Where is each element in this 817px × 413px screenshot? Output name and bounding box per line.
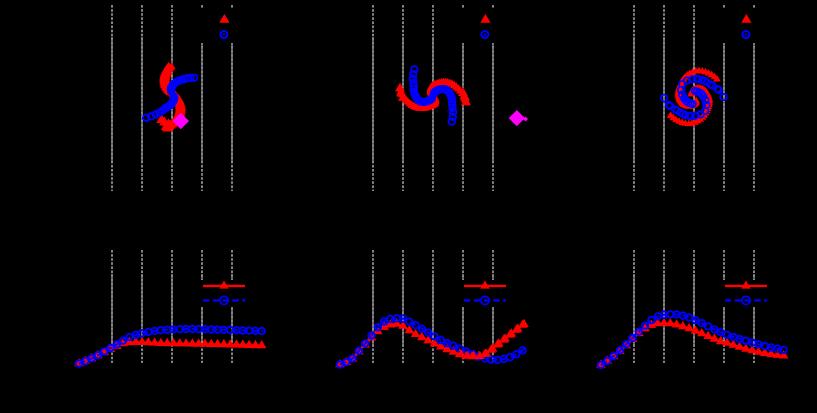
legend red solid line with triangle (bottom) (725, 285, 767, 287)
blue spiral arm 1 overlay, panel 3 (678, 76, 727, 108)
dotted vertical line, top panel 2 (402, 37, 404, 163)
dotted vertical line, bottom panel 2 (372, 274, 374, 345)
legend red solid line with triangle (bottom) (203, 285, 245, 287)
legend background box (bottom) (457, 280, 523, 307)
dotted vertical line, top panel 2 (492, 37, 494, 163)
red spiral arm 1b, panel 1 (164, 91, 186, 131)
dotted vertical line, top panel 2 (372, 37, 374, 163)
dotted vertical line, bottom panel 1 (141, 274, 143, 345)
red curve line, bottom panel 1 (79, 342, 263, 363)
blue curve dashed line, bottom panel 2 (340, 318, 527, 364)
red curve triangle markers, bottom panel 1 (74, 337, 266, 367)
legend background box (top) (457, 9, 523, 43)
dotted vertical line, bottom panel 2 (462, 274, 464, 345)
red spiral arm 2, panel 1 (159, 62, 174, 95)
legend blue circled dot (top) (220, 31, 227, 38)
dotted vertical line, bottom panel 3 (723, 274, 725, 345)
dotted vertical line, bottom panel 3 (663, 274, 665, 345)
red curve triangle markers, bottom panel 3 (596, 318, 788, 368)
small magenta marker, panel 2 (523, 117, 528, 122)
blue spiral arm 2, panel 3 (661, 88, 710, 120)
dotted vertical line, top panel 1 (141, 37, 143, 163)
blue curve dashed line, bottom panel 3 (601, 314, 786, 365)
legend red triangle (top) (219, 14, 229, 23)
dotted vertical line, bottom panel 2 (492, 274, 494, 345)
legend blue dashed line with circle (bottom) (203, 299, 245, 301)
red curve line, bottom panel 3 (601, 323, 786, 365)
legend blue dashed line with circle (bottom) (464, 299, 506, 301)
blue spiral arm 1, panel 1 (143, 93, 178, 121)
magenta diamond marker, panel 2 (509, 110, 525, 126)
legend red triangle (top) (741, 14, 751, 23)
dotted vertical line, top panel 3 (663, 37, 665, 163)
dotted vertical line, top panel 1 (201, 37, 203, 163)
red cluster at arm tip, panel 1 (156, 114, 174, 132)
dotted vertical line, bottom panel 2 (432, 274, 434, 345)
legend background box (bottom) (196, 280, 262, 307)
magenta diamond marker, panel 1 (173, 113, 189, 129)
red curve triangle markers, bottom panel 2 (335, 319, 527, 368)
blue curve circle markers, bottom panel 1 (76, 326, 265, 367)
blue curve circle markers, bottom panel 2 (337, 315, 526, 368)
dotted vertical line, bottom panel 1 (201, 274, 203, 345)
dotted vertical line, bottom panel 3 (753, 274, 755, 345)
red cluster at right arm tip, panel 2 (395, 83, 471, 106)
legend red solid line with triangle (bottom) (464, 285, 506, 287)
dotted vertical line, bottom panel 2 (402, 274, 404, 345)
legend blue dashed line with circle (bottom) (725, 299, 767, 301)
blue spiral arm 2 overlay, panel 3 (661, 88, 710, 120)
dotted vertical line, bottom panel 3 (693, 274, 695, 345)
dotted vertical line, top panel 3 (693, 37, 695, 163)
red spiral arm 1, panel 2 (426, 78, 470, 105)
legend blue circled dot (top) (742, 31, 749, 38)
dotted vertical line, top panel 3 (753, 37, 755, 163)
legend blue circled dot (top) (481, 31, 488, 38)
blue spiral arm 1, panel 3 (678, 76, 727, 108)
red curve overlay at crossing, bottom panel 2 (456, 319, 529, 360)
dotted vertical line, top panel 3 (723, 37, 725, 163)
legend red triangle (top) (480, 14, 490, 23)
dotted vertical line, top panel 2 (462, 37, 464, 163)
legend background box (top) (196, 9, 262, 43)
legend background box (bottom) (718, 280, 784, 307)
dotted vertical line, bottom panel 1 (171, 274, 173, 345)
red spiral arm 2, panel 3 (667, 84, 713, 126)
dotted vertical line, top panel 1 (171, 37, 173, 163)
blue spiral arm 2, panel 2 (431, 86, 457, 125)
red curve line, bottom panel 2 (340, 323, 526, 365)
legend background box (top) (718, 9, 784, 43)
dotted vertical line, bottom panel 1 (231, 274, 233, 345)
blue curve dashed line, bottom panel 1 (79, 329, 263, 364)
blue spiral arm 2, panel 1 (168, 75, 198, 95)
dotted vertical line, top panel 2 (432, 37, 434, 163)
dotted vertical line, top panel 1 (231, 37, 233, 163)
dotted vertical line, bottom panel 1 (111, 274, 113, 345)
blue spiral arm 1, panel 2 (410, 66, 436, 105)
red spiral arm 1, panel 1 (161, 90, 183, 130)
red spiral arm 2, panel 2 (396, 84, 440, 111)
red spiral arm 1, panel 3 (674, 67, 720, 109)
dotted vertical line, top panel 3 (633, 37, 635, 163)
red spiral arm 2b, panel 1 (162, 62, 177, 95)
dotted vertical line, top panel 1 (111, 37, 113, 163)
dotted vertical line, bottom panel 3 (633, 274, 635, 345)
blue curve circle markers, bottom panel 3 (598, 311, 787, 368)
